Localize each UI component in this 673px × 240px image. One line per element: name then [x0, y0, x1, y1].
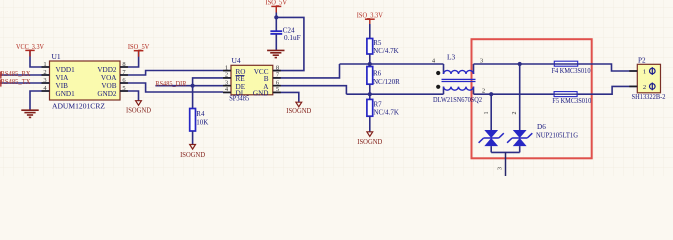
svg-text:1: 1	[484, 112, 490, 115]
svg-text:ADUM1201CRZ: ADUM1201CRZ	[52, 102, 105, 111]
svg-text:ISO_5V: ISO_5V	[266, 0, 288, 7]
svg-text:ISOGND: ISOGND	[286, 107, 311, 115]
svg-text:RS485_DIR: RS485_DIR	[155, 79, 186, 88]
svg-text:2: 2	[225, 72, 228, 79]
svg-text:1: 1	[225, 64, 228, 71]
svg-text:R4: R4	[196, 110, 205, 118]
svg-text:1: 1	[43, 61, 46, 68]
svg-text:VDD2: VDD2	[97, 66, 117, 74]
svg-text:DLW21SN670SQ2: DLW21SN670SQ2	[433, 96, 482, 104]
svg-text:ISO_5V: ISO_5V	[128, 43, 150, 51]
svg-text:3: 3	[498, 167, 504, 170]
svg-text:VDD1: VDD1	[56, 66, 76, 74]
svg-text:RE: RE	[236, 75, 246, 83]
svg-text:1: 1	[643, 69, 646, 76]
svg-text:P2: P2	[638, 57, 646, 65]
svg-text:D6: D6	[537, 123, 546, 131]
svg-text:GND1: GND1	[56, 90, 76, 98]
svg-text:NUP2105LT1G: NUP2105LT1G	[536, 132, 578, 140]
svg-text:F5 KMC3S010: F5 KMC3S010	[552, 98, 592, 105]
svg-text:0.1uF: 0.1uF	[284, 34, 301, 42]
svg-text:5: 5	[122, 85, 125, 92]
svg-text:L3: L3	[447, 53, 455, 62]
svg-text:NC/4.7K: NC/4.7K	[373, 47, 398, 55]
svg-text:ISO_3.3V: ISO_3.3V	[357, 11, 383, 19]
svg-text:ISOGND: ISOGND	[180, 151, 205, 159]
svg-text:SP3485: SP3485	[229, 94, 249, 103]
svg-text:R6: R6	[373, 70, 382, 78]
svg-text:RS485_TX: RS485_TX	[1, 77, 32, 86]
svg-text:U1: U1	[52, 52, 61, 61]
svg-text:VOA: VOA	[101, 74, 117, 82]
svg-text:ISOGND: ISOGND	[357, 138, 382, 146]
svg-text:SH13322B-2: SH13322B-2	[632, 93, 666, 101]
svg-text:GND: GND	[253, 90, 269, 98]
svg-text:R7: R7	[374, 100, 383, 108]
svg-text:8: 8	[122, 61, 125, 68]
svg-text:VIB: VIB	[56, 82, 69, 90]
svg-text:NC/4.7K: NC/4.7K	[374, 109, 399, 117]
svg-text:10K: 10K	[196, 119, 208, 127]
svg-text:2: 2	[643, 84, 646, 91]
svg-text:NC/120R: NC/120R	[373, 78, 400, 86]
svg-text:2: 2	[512, 112, 518, 115]
svg-text:2: 2	[43, 69, 46, 76]
svg-text:8: 8	[276, 64, 279, 71]
svg-text:U4: U4	[232, 56, 241, 65]
svg-text:VOB: VOB	[101, 82, 116, 90]
svg-text:2: 2	[482, 87, 485, 94]
svg-text:F4 KMC3S010: F4 KMC3S010	[552, 68, 592, 75]
svg-text:5: 5	[276, 86, 279, 93]
svg-text:VIA: VIA	[56, 74, 70, 82]
svg-text:VCC_3.3V: VCC_3.3V	[16, 43, 44, 51]
svg-text:ISOGND: ISOGND	[126, 107, 151, 115]
svg-text:B: B	[264, 75, 269, 83]
svg-text:GND2: GND2	[97, 90, 117, 98]
svg-text:3: 3	[43, 77, 46, 84]
svg-text:3: 3	[480, 57, 483, 64]
